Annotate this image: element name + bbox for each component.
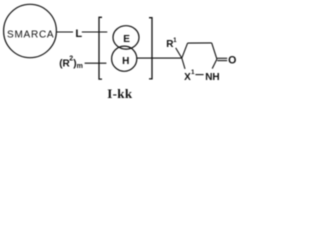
svg-text:H: H (122, 56, 129, 67)
svg-text:I-kk: I-kk (107, 86, 133, 101)
svg-text:L: L (75, 28, 82, 40)
SMARCA ellipse (4, 4, 57, 57)
svg-text:O: O (228, 54, 236, 66)
right bracket (149, 18, 152, 79)
ring bond B-C (top edge) (188, 42, 212, 44)
ring bond A-X (182, 58, 185, 69)
ring H circle (112, 46, 137, 71)
svg-text:m: m (77, 63, 83, 70)
ring bond A-B (182, 43, 188, 58)
svg-text:E: E (123, 34, 130, 45)
ring E circle (113, 26, 139, 49)
ring bond D-N (212, 59, 217, 69)
wire: bond from SMARCA to L (57, 31, 73, 33)
ring bond C-D (212, 43, 217, 59)
wire: bond from (R2)m to bracket (85, 62, 107, 64)
left bracket (99, 17, 102, 79)
svg-text:NH: NH (205, 72, 219, 83)
svg-text:1: 1 (191, 69, 195, 76)
svg-text:SMARCA: SMARCA (7, 29, 54, 40)
bond R1 to carbon A (176, 48, 182, 58)
wire: bond from H ring to scaffold carbon A (137, 57, 182, 59)
svg-text:1: 1 (173, 37, 177, 44)
carbonyl C=O double bond (217, 57, 227, 59)
wire: bond from L to bracket (82, 31, 108, 33)
ring bond X-N (195, 74, 203, 76)
